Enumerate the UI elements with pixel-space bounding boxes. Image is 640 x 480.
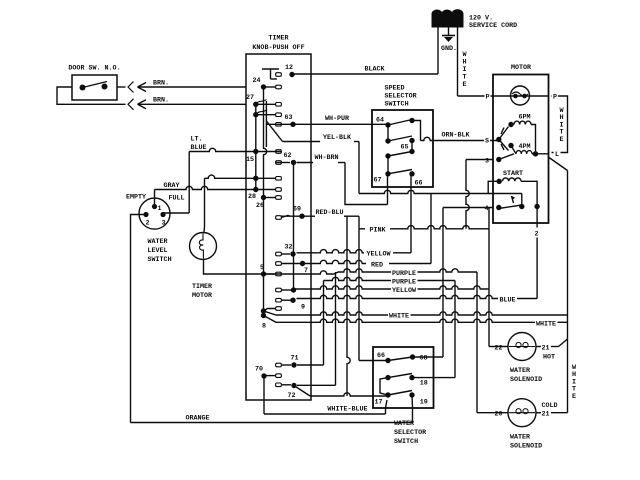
svg-text:26: 26 <box>256 202 264 210</box>
wire BLUE row from timer 9 to motor 2 <box>297 295 538 298</box>
svg-text:WH-PUR: WH-PUR <box>325 115 349 123</box>
contact 72 row <box>276 383 291 387</box>
label WH-BRN <box>314 154 338 162</box>
svg-text:1: 1 <box>157 205 161 213</box>
speed terminal 64 <box>376 117 391 128</box>
wire YELLOW row from timer 32 to speed 66 lead <box>297 174 412 253</box>
label WATER SOLENOID hot <box>510 367 542 384</box>
svg-text:YELLOW: YELLOW <box>366 251 391 259</box>
selector terminal 17 <box>374 392 390 406</box>
wire WHITE row 1 from timer 8 to motor L drop <box>264 311 568 315</box>
speed left bus upper <box>387 125 389 141</box>
svg-text:RED-BLU: RED-BLU <box>315 209 343 217</box>
label WHITE-BLUE <box>327 406 367 414</box>
svg-text:BRN.: BRN. <box>153 97 169 105</box>
svg-text:71: 71 <box>290 355 298 363</box>
svg-text:WATER: WATER <box>510 434 530 442</box>
switch arm below 27 <box>256 110 267 115</box>
svg-text:18: 18 <box>420 380 428 388</box>
water level switch pin 2 <box>143 212 149 228</box>
label 120 V. SERVICE CORD <box>469 15 517 31</box>
wire S rotary fan <box>499 127 509 151</box>
wire EMPTY pin2 down left side to ORANGE run <box>131 215 147 423</box>
svg-text:WHITE: WHITE <box>389 313 409 321</box>
label YELLOW lower <box>392 287 417 295</box>
svg-text:65: 65 <box>400 144 408 152</box>
chevron break lower BRN wire <box>128 99 134 110</box>
svg-text:TIMER: TIMER <box>192 283 212 291</box>
selector terminal 68 <box>410 354 429 363</box>
wire motor 4 row <box>443 207 493 209</box>
selector 18 row extension <box>412 377 455 379</box>
svg-text:12: 12 <box>285 64 293 72</box>
selector terminal 66 <box>377 352 391 363</box>
wire WH-BRN timer 62 to speed 67 <box>297 163 388 205</box>
contact 7 row <box>276 262 300 266</box>
wire riser from red-blu to selector 17 row <box>347 216 350 396</box>
svg-text:8: 8 <box>262 323 266 331</box>
selector arm 18 <box>388 374 412 378</box>
speed switch arm 65 <box>388 136 412 141</box>
svg-text:66: 66 <box>414 180 422 188</box>
svg-text:68: 68 <box>419 355 427 363</box>
label MOTOR <box>511 64 531 72</box>
timer terminal 12 <box>285 64 295 77</box>
label WH-PUR <box>325 115 349 123</box>
label PURPLE 2 <box>392 279 416 287</box>
water level switch circle <box>139 198 170 229</box>
speed switch arm row3 <box>388 152 412 157</box>
svg-text:28: 28 <box>248 193 256 201</box>
label PURPLE 1 <box>392 270 416 278</box>
timer terminal 24 <box>252 77 266 90</box>
svg-text:WATER: WATER <box>394 420 414 428</box>
start switch actuator <box>512 196 516 203</box>
hot water solenoid circle <box>508 333 536 361</box>
svg-text:24: 24 <box>252 77 260 85</box>
motor terminal 2 lead <box>534 207 538 299</box>
svg-text:L: L <box>555 151 559 159</box>
selector 19 inner lead <box>411 395 414 408</box>
svg-text:3: 3 <box>485 157 489 165</box>
timer inner bus 24-8 <box>264 87 267 315</box>
wire WHITE service cord to motor P <box>458 27 494 96</box>
wire motor 3 to junction row <box>466 160 493 229</box>
label WATER SELECTOR SWITCH <box>394 420 426 446</box>
contact 62 row <box>276 161 290 165</box>
label ORANGE <box>185 415 209 423</box>
svg-text:BLUE: BLUE <box>499 297 515 305</box>
svg-text:GND.: GND. <box>441 45 457 53</box>
cold solenoid coil symbol <box>509 409 535 414</box>
wire P row through protector <box>493 95 549 97</box>
timer bus 62-32-290 <box>293 163 295 291</box>
door switch contacts and arm <box>80 82 108 91</box>
start switch moving contact <box>499 204 525 209</box>
timer terminal 69 <box>293 206 305 219</box>
label WATER SOLENOID cold <box>510 434 542 451</box>
svg-text:SWITCH: SWITCH <box>148 256 172 264</box>
wire timer 72 to purple1 riser <box>297 272 336 385</box>
contact 28 row <box>256 188 282 192</box>
coil START <box>497 170 524 184</box>
contact terminal 24 row <box>264 85 282 89</box>
timer terminal 63 <box>284 114 295 127</box>
timer inner terminal below 27 <box>253 112 258 117</box>
speed row3 terminals <box>385 149 414 159</box>
svg-text:5: 5 <box>260 264 264 272</box>
selector arm 66-68 <box>388 357 413 361</box>
selector left bracket <box>380 378 388 395</box>
timer terminal 28 <box>248 187 259 201</box>
label FULL <box>168 195 184 203</box>
wire ORN-BLK speed to motor S <box>421 137 499 140</box>
svg-text:2: 2 <box>145 220 149 228</box>
label RED-BLU <box>315 209 343 217</box>
label COLD <box>541 402 557 410</box>
speed mid right terminal <box>409 138 414 143</box>
svg-text:32: 32 <box>284 244 292 252</box>
svg-text:21: 21 <box>541 345 549 353</box>
wire WH-PUR timer 63 to speed 64 <box>290 123 388 125</box>
hot solenoid coil symbol <box>509 342 535 347</box>
wire YEL-BLK timer to start switch <box>266 121 522 206</box>
label TIMER KNOB-PUSH OFF <box>252 35 304 53</box>
label L <box>554 150 561 159</box>
label hot solenoid 21 <box>541 345 549 353</box>
timer inner terminal row 178 <box>253 176 258 181</box>
speed terminal 67 <box>373 171 390 184</box>
wire FULL pin3 up to LT. BLUE row <box>163 152 189 214</box>
door switch DOOR SW. N.O. <box>72 75 117 100</box>
label WHITE vertical right of motor <box>559 107 564 144</box>
timer terminal 7 <box>300 261 308 275</box>
label PINK <box>365 223 390 235</box>
120V service cord plug <box>432 10 463 27</box>
contact 69 row <box>276 215 290 219</box>
timer terminal 32 <box>284 244 295 257</box>
timer inner arm bus <box>265 101 267 147</box>
svg-text:WATER: WATER <box>510 367 530 375</box>
speed terminal 65 row <box>385 138 408 151</box>
svg-text:SERVICE CORD: SERVICE CORD <box>469 22 517 30</box>
wire RED row from timer 7 to riser <box>305 194 431 264</box>
svg-text:SPEED: SPEED <box>385 85 405 93</box>
wire RED-BLU timer 69 to pink corner <box>281 216 359 229</box>
water level switch pin 3 <box>160 212 165 228</box>
wire timer motor bottom lead to timer terminal 5 <box>204 260 264 275</box>
label BRN upper <box>153 80 169 88</box>
wire cold solenoid 20 lead <box>477 412 508 414</box>
timer terminal 62 <box>283 152 296 165</box>
svg-text:LEVEL: LEVEL <box>148 247 168 255</box>
label P right <box>552 93 558 102</box>
coil 4PM <box>508 143 548 157</box>
svg-text:67: 67 <box>373 177 381 185</box>
svg-text:MOTOR: MOTOR <box>511 64 531 72</box>
label GND. <box>441 45 457 53</box>
label RED <box>371 262 383 270</box>
svg-text:START: START <box>503 170 523 178</box>
contact 63 row <box>266 123 290 127</box>
wire ORANGE along bottom to water selector 19 lead <box>131 408 413 423</box>
svg-text:3: 3 <box>161 220 165 228</box>
svg-text:SELECTOR: SELECTOR <box>385 93 417 101</box>
svg-text:WHITE-BLUE: WHITE-BLUE <box>327 406 367 414</box>
svg-text:S: S <box>485 137 489 145</box>
wire hot solenoid 22 lead <box>489 346 508 348</box>
timer terminal 8 pair <box>261 308 266 330</box>
wire timer motor top lead to terminal row <box>203 178 206 233</box>
wire PURPLE row 2 from timer 71 riser <box>297 277 455 377</box>
start coil right lead <box>521 181 540 209</box>
wire hot solenoid 21 lead <box>536 346 559 348</box>
svg-text:P: P <box>553 94 557 102</box>
wire cold solenoid 21 lead <box>536 412 568 414</box>
label YEL-BLK <box>323 134 352 142</box>
cold water solenoid circle <box>508 399 536 427</box>
wire selector 68 feed from motor 4 riser <box>413 208 444 358</box>
contact terminal 12 row <box>276 73 282 77</box>
switch arm 27 <box>256 100 267 105</box>
speed left bus lower <box>387 156 389 174</box>
motor protector circle <box>511 86 530 105</box>
motor terminal S <box>484 137 501 146</box>
svg-text:SOLENOID: SOLENOID <box>510 376 542 384</box>
wire LT. BLUE to timer 15 <box>189 148 256 151</box>
wire PINK row <box>359 226 489 229</box>
label TIMER MOTOR <box>192 283 212 300</box>
wire WHITE row 2 from timer 8 to solenoid WHITE label <box>264 316 568 323</box>
wire 3 to 4PM <box>499 154 514 160</box>
svg-text:4PM: 4PM <box>518 143 530 151</box>
svg-text:27: 27 <box>246 94 254 102</box>
label BLACK <box>364 66 385 74</box>
coil 6PM <box>508 114 535 154</box>
timer motor circle <box>190 233 217 260</box>
ground symbol arrow <box>442 36 455 43</box>
svg-text:21: 21 <box>541 411 549 419</box>
svg-text:9: 9 <box>301 304 305 312</box>
label YELLOW upper <box>366 251 391 259</box>
label cold solenoid 20 <box>494 410 504 419</box>
contact row 114 <box>256 113 282 117</box>
contact 27 row <box>256 103 282 107</box>
svg-text:RED: RED <box>371 262 383 270</box>
svg-text:ORANGE: ORANGE <box>185 415 209 423</box>
timer terminal 26 <box>256 195 266 210</box>
label GRAY <box>163 182 179 190</box>
label WHITE middle <box>389 313 409 321</box>
label BLUE <box>499 297 515 305</box>
svg-text:YELLOW: YELLOW <box>392 287 417 295</box>
svg-text:KNOB-PUSH OFF: KNOB-PUSH OFF <box>252 44 304 52</box>
contact 26 row <box>264 196 282 200</box>
svg-text:MOTOR: MOTOR <box>192 292 212 300</box>
svg-text:DOOR SW. N.O.: DOOR SW. N.O. <box>68 65 120 73</box>
wire timer 70 to selector 17 lead <box>264 376 387 414</box>
svg-text:19: 19 <box>420 399 428 407</box>
wire PURPLE row 1 from timer 5 to cold solenoid riser <box>264 269 478 413</box>
motor protector contacts <box>512 92 528 98</box>
motor box <box>493 75 549 224</box>
svg-text:HOT: HOT <box>543 354 555 362</box>
label P left <box>485 93 491 102</box>
svg-text:PURPLE: PURPLE <box>392 270 416 278</box>
svg-text:SELECTOR: SELECTOR <box>394 429 426 437</box>
svg-text:PINK: PINK <box>369 227 386 235</box>
speed bracket right <box>412 121 421 141</box>
wire BRN lower from door switch around to timer terminal 27 <box>57 87 246 109</box>
motor terminal 4 <box>484 205 502 214</box>
motor terminal 3 <box>484 157 501 166</box>
svg-text:SWITCH: SWITCH <box>385 100 409 108</box>
wire BRN upper from door switch to timer terminal 24 <box>117 83 246 92</box>
svg-text:BRN.: BRN. <box>153 80 169 88</box>
timer terminal 15 <box>246 149 259 164</box>
svg-text:BLACK: BLACK <box>364 66 385 74</box>
timer terminal 27 <box>246 94 259 107</box>
label LT. BLUE <box>191 136 207 153</box>
label WHITE vertical near cord <box>462 51 467 89</box>
svg-text:SOLENOID: SOLENOID <box>510 443 542 451</box>
wire white bracket P to L <box>552 96 568 153</box>
timer terminal 71 <box>290 355 298 368</box>
contact 15 row <box>256 150 282 154</box>
contact 9 row <box>276 298 291 302</box>
selector terminal 19 <box>409 392 428 406</box>
label ORN-BLK <box>441 132 470 140</box>
timer motor winding <box>199 234 203 259</box>
label SPEED SELECTOR SWITCH <box>385 85 417 109</box>
wire white drop to solenoids <box>559 171 568 413</box>
start coil left bracket <box>488 181 499 193</box>
timer terminal 9 <box>290 298 305 312</box>
svg-text:22: 22 <box>494 345 502 353</box>
svg-text:2: 2 <box>534 231 538 239</box>
label hot solenoid 22 <box>494 344 504 353</box>
timer inner bus 27-28 <box>255 104 257 189</box>
timer knob T symbol <box>262 69 279 79</box>
label WATER LEVEL SWITCH <box>148 238 172 264</box>
speed switch arm bottom <box>388 170 412 174</box>
label BRN lower <box>153 97 169 105</box>
selector terminal 18 row <box>385 375 428 388</box>
wire 66 row from riser <box>359 229 388 361</box>
wire BLACK service cord to timer 12 <box>292 27 438 74</box>
svg-text:PURPLE: PURPLE <box>392 279 416 287</box>
timer inner terminal row 290 <box>291 287 296 292</box>
wire pink riser to motor 4 <box>488 208 490 347</box>
speed terminal 66 <box>409 171 422 187</box>
svg-text:P: P <box>485 94 489 102</box>
timer terminal 5 <box>260 264 266 277</box>
wire timer 72 diagonal to water selector 17 <box>294 386 388 397</box>
contact row 178 <box>205 175 282 180</box>
svg-text:COLD: COLD <box>541 402 557 410</box>
water selector switch box <box>373 347 434 408</box>
contact 70 row <box>264 374 281 378</box>
svg-text:EMPTY: EMPTY <box>126 194 146 202</box>
svg-text:FULL: FULL <box>168 195 184 203</box>
svg-text:72: 72 <box>287 392 295 400</box>
timer box KNOB-PUSH OFF <box>246 54 311 400</box>
label cold solenoid 21 <box>541 411 549 419</box>
water level switch pin 1 <box>152 204 162 213</box>
svg-text:WH-BRN: WH-BRN <box>314 154 338 162</box>
speed right bus <box>411 141 413 152</box>
svg-text:6PM: 6PM <box>518 114 530 122</box>
svg-text:YEL-BLK: YEL-BLK <box>323 134 352 142</box>
contact row 290 <box>276 288 291 292</box>
svg-text:62: 62 <box>283 152 291 160</box>
timer terminal 72 <box>287 383 296 400</box>
svg-text:WATER: WATER <box>148 238 168 246</box>
wire YELLOW row 2 from timer row 290 to hot solenoid riser <box>294 286 490 289</box>
chevron break upper BRN wire <box>128 82 134 93</box>
svg-text:64: 64 <box>376 117 384 125</box>
selector arm 17-19 <box>388 391 412 396</box>
svg-text:LT.: LT. <box>191 136 203 144</box>
label DOOR SW. N.O. <box>68 65 120 73</box>
svg-text:70: 70 <box>255 366 263 374</box>
contact 8 row <box>264 307 282 311</box>
label EMPTY <box>126 194 146 202</box>
label WHITE vertical right of solenoids <box>572 364 577 401</box>
svg-text:WHITE: WHITE <box>536 321 556 329</box>
svg-text:SWITCH: SWITCH <box>394 438 418 446</box>
ground lead <box>448 27 450 36</box>
wire L diagonal to white drop <box>549 158 568 171</box>
wire GRAY pin1 to timer 28 <box>155 186 256 206</box>
svg-text:66: 66 <box>377 352 385 360</box>
speed switch arm 64 <box>388 120 412 126</box>
svg-text:63: 63 <box>284 114 292 122</box>
svg-text:17: 17 <box>374 399 382 407</box>
label WHITE right <box>536 321 556 329</box>
contact 5 row <box>266 272 281 276</box>
contact 32 row <box>276 252 290 256</box>
speed selector switch box <box>372 110 433 187</box>
svg-text:20: 20 <box>494 411 502 419</box>
label HOT <box>543 354 555 362</box>
svg-text:15: 15 <box>246 156 254 164</box>
speed right top terminal <box>409 118 414 123</box>
svg-text:TIMER: TIMER <box>268 35 288 43</box>
svg-text:ORN-BLK: ORN-BLK <box>441 132 470 140</box>
svg-text:4: 4 <box>484 205 488 213</box>
contact 71 row <box>276 363 291 367</box>
timer terminal 70 <box>255 366 267 379</box>
